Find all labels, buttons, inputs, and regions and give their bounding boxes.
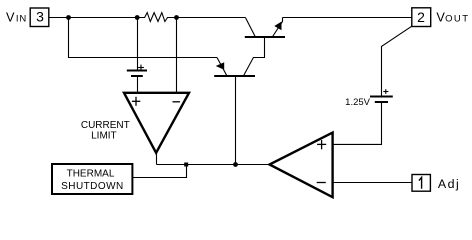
pin box 2 xyxy=(412,8,431,27)
op-amp U1 current limit xyxy=(124,93,189,153)
node E junction dot xyxy=(233,162,238,167)
resistor R1 (current sense) xyxy=(138,13,177,22)
label VIN xyxy=(6,11,27,25)
wire Q2 emitter to pin box 2 xyxy=(283,17,412,19)
thermal shutdown block xyxy=(52,164,132,194)
wire node E to Q1 base xyxy=(235,76,237,165)
wire pin3 to node A xyxy=(50,17,69,19)
svg-text:CURRENT: CURRENT xyxy=(81,120,130,131)
transistor Q1 driver xyxy=(214,37,264,76)
pin box 3 xyxy=(30,8,49,27)
svg-text:LIMIT: LIMIT xyxy=(91,130,117,141)
node C junction dot xyxy=(174,15,179,20)
svg-text:V: V xyxy=(436,11,445,25)
wire pin 2 down to reference xyxy=(382,26,412,96)
wire node C down to current limit amp - input xyxy=(176,18,178,93)
wire node B down to battery V1 xyxy=(137,18,139,71)
wire node A down and right to Q1 emitter xyxy=(69,18,218,58)
svg-text:THERMAL: THERMAL xyxy=(67,169,115,180)
wire battery V1 to current limit amp + input xyxy=(137,77,139,93)
svg-text:OUT: OUT xyxy=(445,14,469,25)
svg-text:1.25V: 1.25V xyxy=(345,97,370,108)
node D square junction xyxy=(184,163,188,167)
node A junction dot xyxy=(66,15,71,20)
wire U2 - input to pin box 1 xyxy=(333,182,412,184)
node B junction dot xyxy=(135,15,140,20)
wire node C to Q2 collector xyxy=(177,17,246,19)
wire bottom rail U1 to U2 xyxy=(157,164,270,166)
pin box 1 xyxy=(412,175,430,192)
battery V2 1.25V reference xyxy=(370,89,393,102)
op-amp U2 error amplifier xyxy=(270,133,333,198)
label VOUT xyxy=(436,11,469,25)
svg-text:Adj: Adj xyxy=(438,177,460,191)
svg-text:SHUTDOWN: SHUTDOWN xyxy=(61,181,123,192)
transistor Q2 output xyxy=(245,18,285,38)
svg-text:IN: IN xyxy=(16,14,27,25)
svg-text:2: 2 xyxy=(417,9,425,25)
wire node A to node B xyxy=(69,17,138,19)
svg-text:3: 3 xyxy=(36,9,44,25)
svg-text:V: V xyxy=(6,11,15,25)
wire battery V2 to U2 + input xyxy=(333,103,382,144)
wire U1 output to bottom rail xyxy=(156,153,158,165)
battery V1 (current limit offset) xyxy=(127,65,147,76)
wire node D to thermal shutdown xyxy=(132,165,186,178)
label CURRENT LIMIT xyxy=(81,120,130,142)
